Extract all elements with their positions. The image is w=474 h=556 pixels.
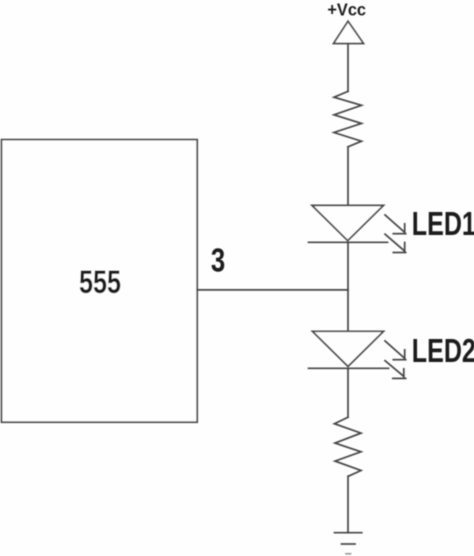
resistor R1 bbox=[334, 91, 362, 146]
LED D1 cathode bar bbox=[309, 241, 388, 243]
svg-text:3: 3 bbox=[211, 243, 225, 280]
LED D2 triangle bbox=[313, 331, 384, 366]
svg-text:LED1: LED1 bbox=[412, 206, 474, 243]
wire Vcc to R1 bbox=[347, 44, 349, 92]
wire R2 to ground bbox=[347, 476, 349, 533]
wire LED2 to R2 bbox=[347, 368, 349, 417]
IC U1 555 box bbox=[2, 140, 198, 423]
LED D1 light arrow a bbox=[385, 215, 406, 234]
LED D1 triangle bbox=[312, 205, 384, 240]
svg-text:555: 555 bbox=[79, 265, 121, 301]
resistor R2 bbox=[334, 417, 361, 476]
ground bbox=[335, 533, 362, 554]
power symbol Vcc triangle bbox=[334, 21, 364, 43]
LED D2 light arrow a bbox=[385, 341, 406, 360]
LED D2 light arrow b bbox=[385, 361, 406, 379]
wire R1 to LED1 bbox=[347, 147, 349, 206]
LED D2 cathode bar bbox=[309, 367, 389, 369]
wire pin 3 to node bbox=[197, 289, 348, 291]
svg-text:LED2: LED2 bbox=[412, 333, 474, 370]
LED D1 light arrow b bbox=[385, 234, 406, 252]
wire LED1 to LED2 through node bbox=[347, 242, 349, 331]
svg-text:+Vcc: +Vcc bbox=[327, 0, 366, 19]
